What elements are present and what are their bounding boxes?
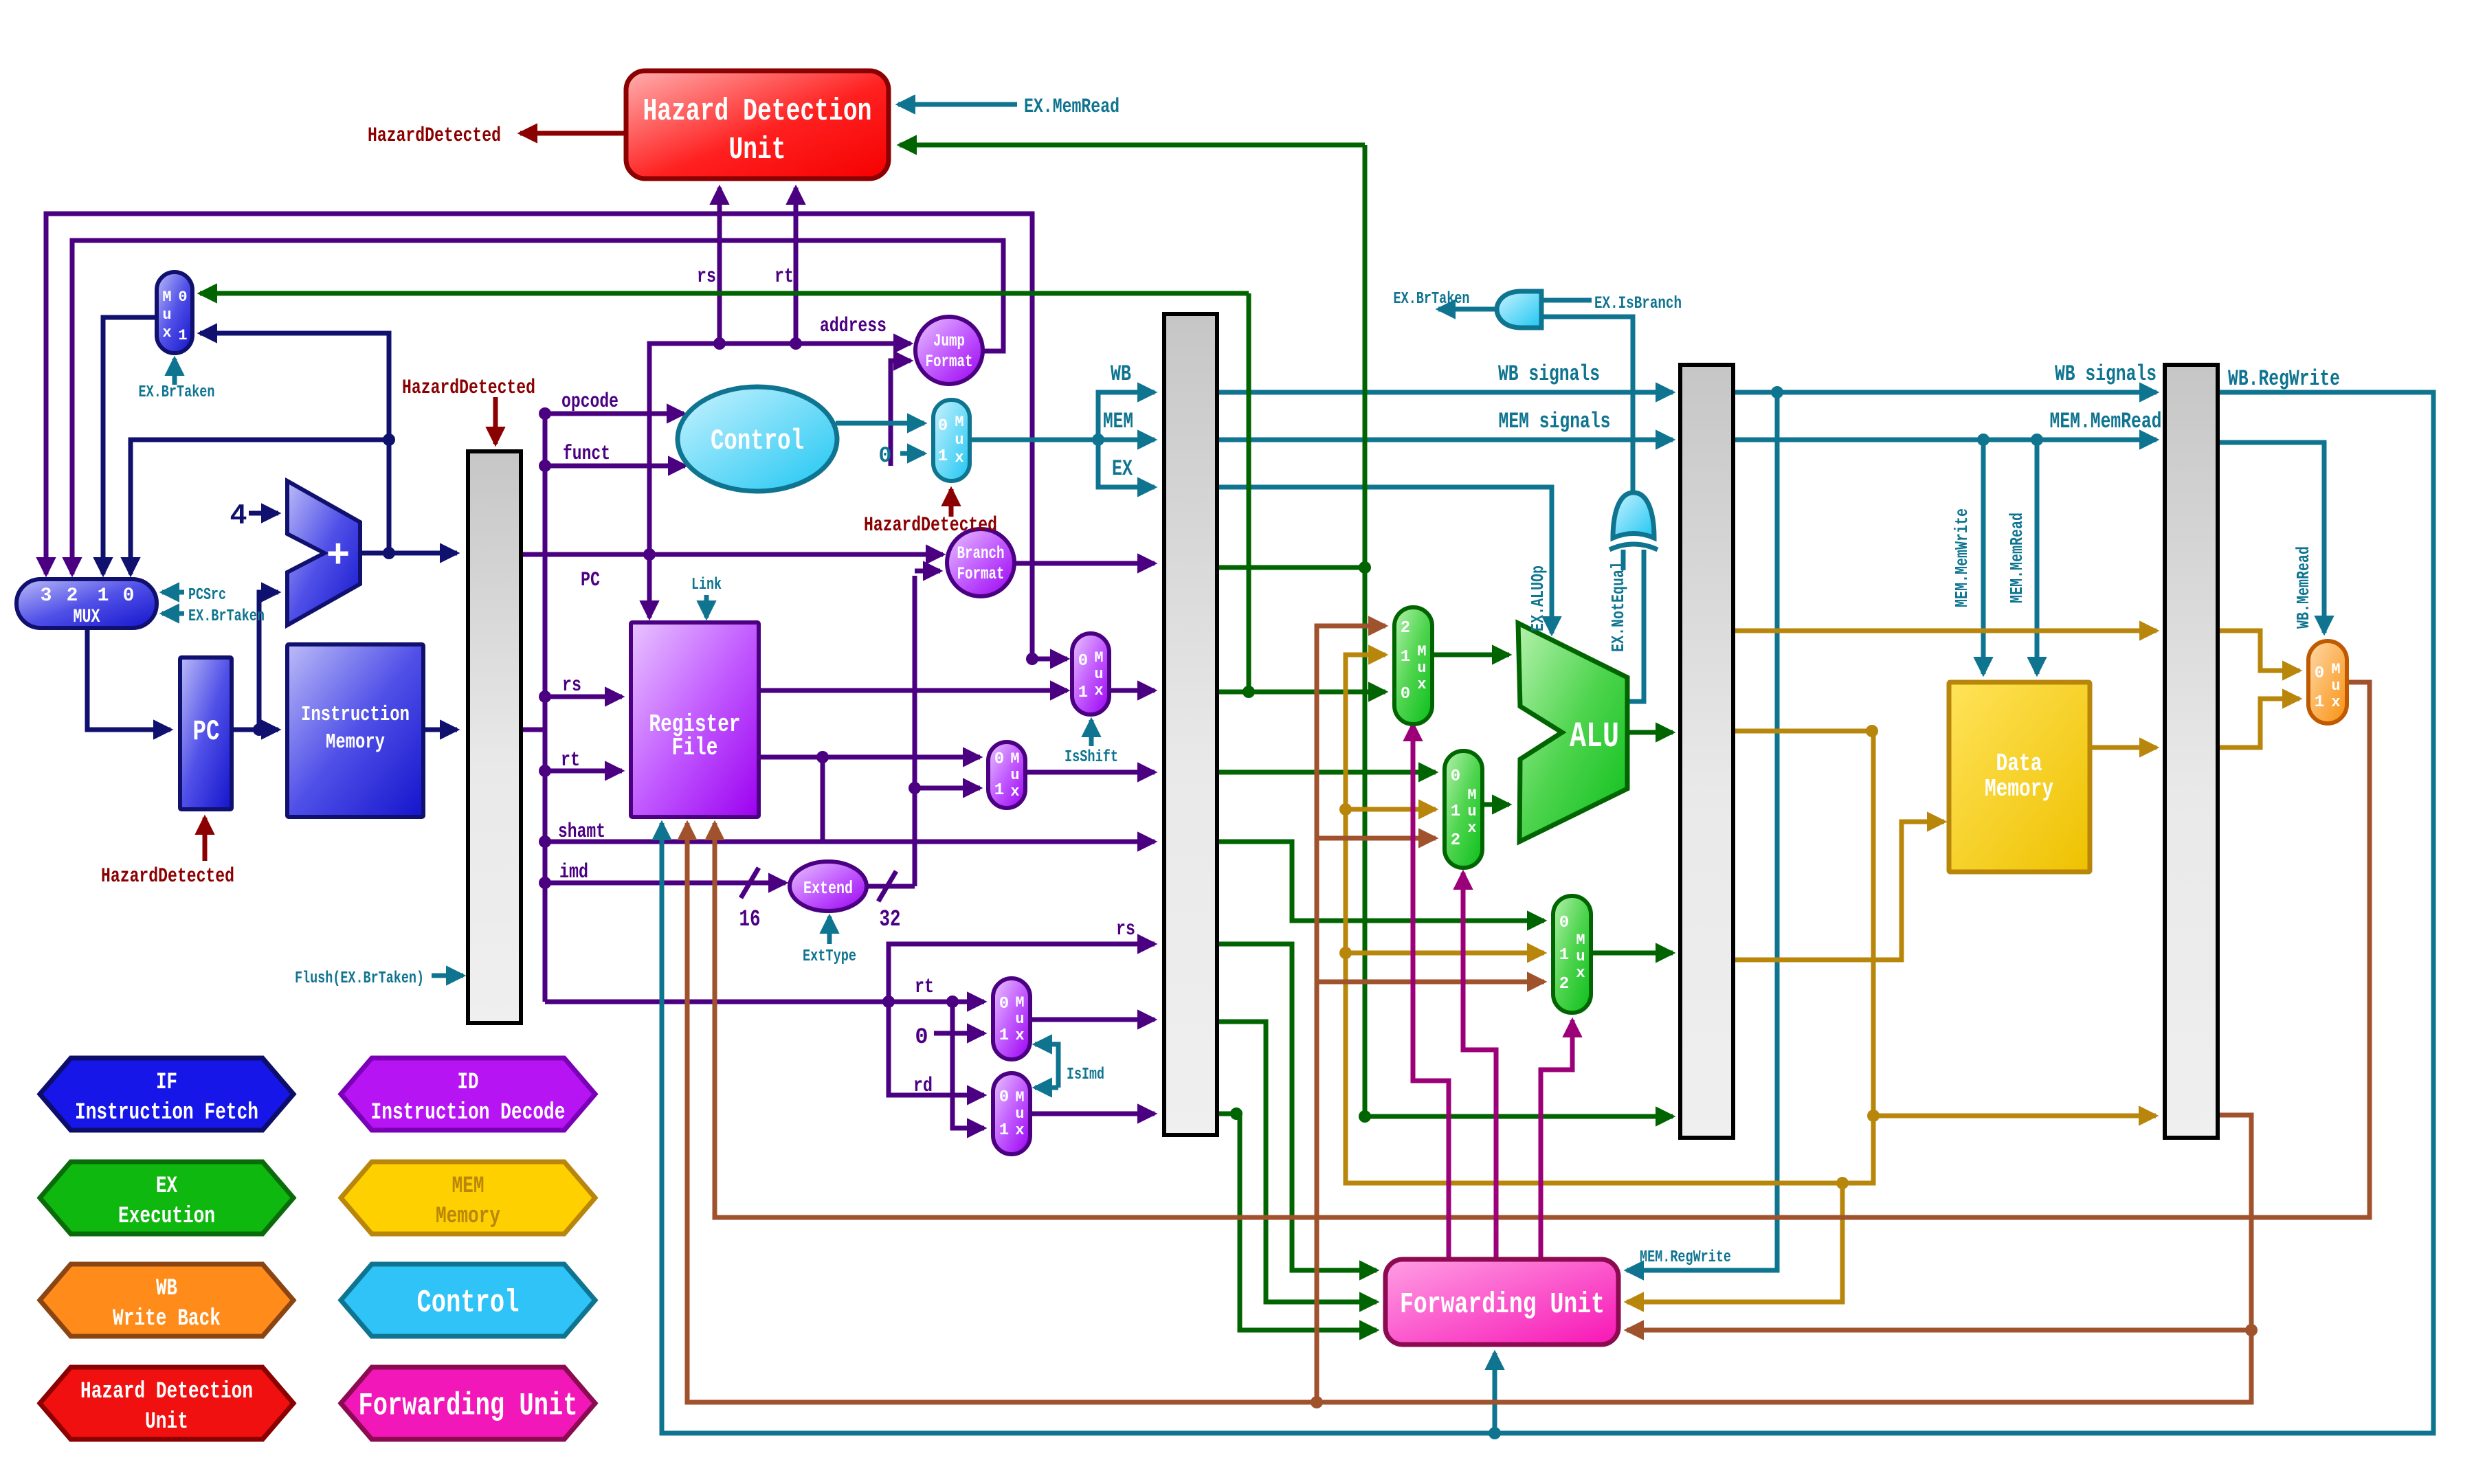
wire WB.RegWrite return rail — [662, 392, 2433, 1433]
wire jump-register feedback to PC mux input 3 — [46, 214, 1032, 659]
wire EX.MemRead into HDU — [898, 102, 1017, 107]
svg-text:rt: rt — [915, 976, 934, 999]
svg-text:2: 2 — [1451, 831, 1460, 850]
wire extend output up to branch format — [913, 576, 917, 886]
svg-text:0: 0 — [915, 1024, 928, 1050]
wire instruction stub from IF/ID — [521, 728, 545, 732]
wire rs out of ID/EX to Forwarding Unit — [1217, 944, 1377, 1270]
branch format — [947, 529, 1014, 596]
svg-text:Unit: Unit — [729, 133, 786, 168]
svg-text:u: u — [1010, 767, 1019, 784]
wire rs loop to ID/EX — [889, 944, 1155, 1002]
jump format — [915, 317, 983, 384]
wire EX target to brtaken mux — [200, 291, 1249, 296]
svg-text:imd: imd — [559, 861, 588, 884]
junction ex rail hdu — [1359, 561, 1371, 574]
svg-text:1: 1 — [938, 447, 948, 466]
svg-text:EX.IsBranch: EX.IsBranch — [1594, 293, 1682, 313]
wire shift mux output to ID/EX — [1026, 770, 1155, 775]
wire WB forward rail — [1317, 626, 1385, 1402]
rt/0 mux — [993, 978, 1030, 1059]
wire register read2 to shift mux — [759, 755, 980, 760]
store data mux — [1553, 896, 1591, 1013]
wire EX destination to HDU — [900, 143, 1365, 148]
AND gate branch taken — [1497, 291, 1541, 328]
wire Data Memory output to MEM/WB — [2090, 745, 2157, 750]
svg-text:M: M — [2331, 661, 2340, 678]
svg-text:shamt: shamt — [558, 820, 605, 844]
junction ind — [909, 782, 921, 794]
svg-text:rs: rs — [562, 674, 581, 697]
wire WB data return — [687, 823, 2251, 1402]
sign extend — [790, 862, 867, 911]
wire rt tap down to rd mux input1 — [952, 1002, 984, 1128]
svg-text:IsImd: IsImd — [1067, 1066, 1104, 1084]
wire WB signals ID/EX to EX/MEM — [1217, 390, 1673, 395]
svg-text:MEM.MemRead: MEM.MemRead — [2007, 513, 2027, 603]
svg-text:u: u — [1467, 803, 1476, 820]
junction ind — [539, 835, 551, 848]
register file — [631, 622, 759, 817]
control bubble mux — [933, 400, 970, 481]
svg-text:M: M — [162, 289, 171, 306]
svg-text:Forwarding Unit: Forwarding Unit — [1400, 1288, 1605, 1321]
svg-text:1: 1 — [98, 585, 109, 607]
junction ind — [816, 751, 829, 763]
wire read2 tap down to shamt rail — [821, 757, 825, 842]
wire MEM.MemRead into Data Memory — [2035, 440, 2040, 674]
junction ind — [539, 690, 551, 703]
wire EX target rail down — [1247, 293, 1251, 692]
wire MEM.RegWrite to Forwarding Unit — [1627, 392, 1777, 1270]
slash 32-bit — [878, 871, 896, 901]
wire EX dest into EX/MEM — [1365, 1114, 1673, 1119]
svg-text:0: 0 — [999, 995, 1009, 1013]
wire branch format output to ID/EX — [1014, 561, 1155, 566]
wire jump-register tap into link mux input 0 — [1032, 657, 1067, 662]
svg-text:Unit: Unit — [145, 1409, 188, 1435]
svg-text:Forwarding Unit: Forwarding Unit — [359, 1389, 578, 1424]
svg-text:0: 0 — [994, 750, 1004, 769]
wire funct to Control — [545, 464, 685, 469]
svg-text:EX.BrTaken: EX.BrTaken — [188, 607, 265, 626]
svg-text:x: x — [1576, 965, 1585, 982]
XOR gate not-equal — [1613, 493, 1654, 538]
wire extend tap to shift mux input 1 — [915, 786, 980, 791]
svg-text:ID: ID — [458, 1070, 479, 1096]
wire WB signals EX/MEM to MEM/WB — [1732, 390, 2157, 395]
junction ind — [1026, 653, 1038, 665]
svg-text:Branch: Branch — [957, 543, 1005, 563]
junction pc out — [253, 723, 265, 736]
wire PC mux output to PC — [87, 628, 170, 730]
svg-text:Link: Link — [691, 576, 722, 594]
svg-text:WB signals: WB signals — [2055, 361, 2157, 387]
wire PC to Instruction Memory — [232, 728, 278, 732]
brtaken MUX — [157, 272, 192, 353]
wire EX.BrTaken result — [1438, 307, 1497, 312]
svg-text:rs: rs — [1116, 918, 1135, 941]
junction rd green — [1230, 1108, 1242, 1120]
junction pc+4 b — [383, 434, 395, 446]
svg-text:rt: rt — [774, 265, 794, 289]
junction ind — [946, 996, 959, 1008]
wire EX branch-taken rail — [1363, 145, 1368, 1116]
svg-text:Control: Control — [711, 425, 804, 458]
svg-text:rt: rt — [561, 749, 580, 772]
junction amb fu — [1836, 1177, 1849, 1189]
wire IsImd select — [1035, 1044, 1058, 1088]
svg-text:EX.MemRead: EX.MemRead — [1024, 95, 1119, 119]
svg-text:1: 1 — [994, 781, 1004, 800]
wire jump format lower input — [891, 361, 911, 466]
junction pc+4 a — [383, 547, 395, 559]
wire rt into rt/0 mux — [889, 1000, 984, 1004]
svg-text:opcode: opcode — [561, 390, 618, 414]
svg-text:x: x — [1094, 682, 1103, 699]
svg-text:rd: rd — [913, 1075, 933, 1098]
svg-text:0: 0 — [178, 289, 187, 306]
svg-text:M: M — [1015, 1089, 1024, 1106]
shift mux — [988, 742, 1025, 808]
svg-text:HazardDetected: HazardDetected — [864, 514, 997, 537]
svg-text:WB.MemRead: WB.MemRead — [2293, 546, 2314, 629]
svg-text:PC: PC — [193, 715, 220, 748]
wire bypass value to WB mux — [2217, 631, 2299, 671]
wire rs into Register File — [545, 695, 622, 699]
wire instruction distribution rail — [543, 414, 548, 1002]
wire MEM result to MEM/WB bottom — [1873, 1114, 2156, 1118]
wire rd out of ID/EX to Forwarding Unit — [1217, 1114, 1377, 1330]
wire branch format lower input — [915, 569, 940, 574]
svg-text:MUX: MUX — [74, 607, 100, 628]
junction amb st — [1339, 947, 1352, 959]
svg-text:rs: rs — [697, 265, 716, 289]
svg-text:EX.ALUOp: EX.ALUOp — [1528, 565, 1548, 631]
wire IsShift select — [1089, 720, 1094, 746]
wire EX.IsBranch into AND — [1541, 298, 1592, 303]
svg-text:u: u — [1015, 1011, 1024, 1028]
svg-text:EX.BrTaken: EX.BrTaken — [1394, 290, 1470, 308]
wire Control output to control mux — [836, 421, 924, 426]
svg-text:Hazard Detection: Hazard Detection — [643, 94, 872, 129]
svg-text:IF: IF — [156, 1070, 177, 1096]
svg-text:x: x — [1417, 676, 1426, 693]
svg-text:x: x — [2331, 694, 2340, 711]
junction ind — [882, 996, 895, 1008]
wire PC tap up to adder — [259, 592, 278, 730]
svg-text:EX: EX — [1112, 456, 1133, 482]
svg-text:1: 1 — [1078, 684, 1088, 702]
svg-text:HazardDetected: HazardDetected — [368, 124, 501, 148]
wire Flush(EX.BrTaken) into IF/ID — [432, 974, 463, 978]
wire store data mux output to EX/MEM — [1591, 951, 1673, 956]
svg-text:x: x — [1467, 820, 1476, 837]
junction ind — [539, 877, 551, 889]
svg-text:1: 1 — [1451, 802, 1460, 821]
svg-text:u: u — [1576, 948, 1585, 965]
legend ID — [341, 1058, 595, 1130]
svg-text:Instruction: Instruction — [301, 703, 410, 727]
wire const 4 into adder — [249, 511, 278, 516]
instruction memory — [287, 644, 423, 817]
wire forward A mux output to ALU — [1432, 653, 1509, 657]
svg-text:u: u — [1015, 1105, 1024, 1123]
svg-text:File: File — [672, 734, 718, 762]
junction memwrite — [1977, 434, 1990, 446]
data memory — [1949, 682, 2090, 872]
legend HDU — [40, 1367, 293, 1439]
wire IsImd select lower — [1035, 1086, 1058, 1090]
wire register read1 to link mux — [759, 688, 1067, 693]
svg-text:EX.NotEqual: EX.NotEqual — [1608, 561, 1629, 652]
wire MEM signals EX/MEM to MEM/WB — [1732, 438, 2157, 442]
wire branch target out of ID/EX — [1217, 565, 1365, 570]
svg-text:0: 0 — [938, 417, 948, 436]
slash 16-bit — [741, 868, 759, 898]
legend WB — [40, 1264, 293, 1336]
legend Control — [341, 1264, 595, 1336]
pipeline register MEM/WB — [2165, 365, 2218, 1138]
wire jump target to PC mux input 2 — [72, 240, 1003, 574]
svg-text:Control: Control — [417, 1285, 520, 1321]
wire adder output to IF/ID — [360, 551, 457, 556]
link mux — [1072, 633, 1109, 715]
svg-text:Jump: Jump — [933, 331, 965, 351]
wire WB.RegWrite to Forwarding Unit — [1493, 1353, 1497, 1433]
wire WB dest to Forwarding Unit — [1627, 1328, 2251, 1333]
svg-text:EX: EX — [156, 1173, 177, 1200]
wire Instruction Memory output to IF/ID — [423, 728, 457, 732]
forwarding unit — [1385, 1259, 1618, 1345]
junction teal ctl — [1092, 434, 1104, 446]
wire EX.BrTaken select PC mux — [162, 611, 184, 616]
svg-text:3: 3 — [41, 585, 52, 607]
wire brtaken mux output to PC mux input 1 — [103, 317, 157, 574]
svg-text:u: u — [2331, 677, 2340, 695]
wire rd line into rd mux — [889, 1002, 984, 1095]
wire forward B mux output to ALU — [1482, 802, 1509, 807]
svg-text:16: 16 — [739, 907, 761, 933]
legend IF — [40, 1058, 293, 1130]
wire EX/MEM result bypass to MEM/WB — [1732, 629, 2157, 633]
svg-text:Memory: Memory — [436, 1204, 500, 1230]
wire PC+4 rail to mux input 0 — [131, 440, 389, 574]
svg-text:MEM: MEM — [452, 1173, 484, 1200]
junction brn fu — [2245, 1324, 2258, 1336]
svg-text:1: 1 — [2315, 693, 2324, 712]
wire PC value to Branch Format — [521, 552, 943, 557]
junction brn rail — [1311, 1396, 1323, 1408]
svg-text:MEM.MemRead: MEM.MemRead — [2050, 409, 2162, 434]
svg-text:x: x — [955, 449, 963, 466]
forward A mux — [1394, 607, 1432, 724]
wire WB forward to B mux — [1317, 836, 1436, 841]
svg-text:MEM: MEM — [1103, 409, 1133, 434]
wire memory value to WB mux — [2217, 699, 2299, 747]
wire forward select B — [1463, 873, 1496, 1259]
svg-text:u: u — [162, 306, 171, 324]
wire 0 const into control mux — [900, 451, 924, 456]
svg-text:M: M — [1015, 994, 1024, 1011]
svg-text:M: M — [1467, 787, 1476, 804]
control unit — [678, 387, 837, 491]
svg-text:4: 4 — [230, 499, 247, 532]
svg-text:HazardDetected: HazardDetected — [402, 376, 535, 400]
wire link mux output to ID/EX — [1110, 688, 1155, 693]
svg-text:funct: funct — [563, 442, 610, 466]
svg-text:1: 1 — [999, 1026, 1009, 1045]
wire WB mux output writeback — [715, 682, 2370, 1217]
wire NotEqual to AND gate — [1541, 317, 1633, 491]
wire forward select store — [1541, 1020, 1572, 1259]
svg-text:Format: Format — [957, 564, 1005, 584]
svg-text:Hazard Detection: Hazard Detection — [80, 1379, 253, 1405]
svg-text:1: 1 — [999, 1121, 1009, 1140]
wire address rail to Jump Format — [649, 344, 911, 554]
junction wb sig — [1771, 386, 1783, 398]
wire imd to Extend — [545, 881, 785, 886]
wire HazardDetected arrow into PC write — [203, 818, 208, 861]
wire shamt out of ID/EX — [1217, 842, 1544, 921]
junction amb alu — [1866, 725, 1878, 737]
wire Link into Register File — [704, 595, 709, 618]
wire PCSrc select — [162, 590, 184, 595]
ALU — [1518, 623, 1627, 842]
wire HazardDetected arrow into control mux — [949, 489, 954, 517]
svg-text:0: 0 — [878, 443, 891, 469]
svg-text:PC: PC — [581, 569, 600, 592]
svg-text:x: x — [1010, 783, 1019, 800]
svg-text:Format: Format — [926, 352, 973, 372]
junction ex rail bottom — [1359, 1110, 1371, 1123]
wire ALU flag to NotEqual gate — [1629, 550, 1644, 701]
wire opcode to Control — [545, 412, 684, 416]
wire ExtType select into Extend — [827, 917, 832, 944]
PC register — [180, 657, 232, 809]
wire MEM forward to store mux — [1346, 951, 1544, 956]
svg-text:0: 0 — [1401, 685, 1410, 704]
hazard detection unit — [626, 71, 889, 179]
svg-text:Execution: Execution — [118, 1204, 215, 1230]
svg-text:WB signals: WB signals — [1498, 361, 1600, 387]
wire HazardDetected output from HDU — [520, 131, 626, 136]
svg-text:0: 0 — [1451, 767, 1460, 786]
wire rt into Register File — [545, 769, 622, 774]
wire shamt to ID/EX — [545, 840, 1155, 844]
wire rs field up to Hazard Detection — [717, 188, 722, 344]
wire operand A out of ID/EX — [1217, 690, 1385, 695]
svg-text:IsShift: IsShift — [1065, 748, 1118, 767]
wire HazardDetected arrow into IF/ID flush — [493, 397, 498, 444]
svg-text:Instruction Decode: Instruction Decode — [371, 1100, 566, 1126]
svg-text:ALU: ALU — [1570, 717, 1619, 757]
svg-text:x: x — [1015, 1027, 1024, 1044]
legend EX — [40, 1162, 293, 1234]
wire EX bundle into ID/EX — [1098, 440, 1155, 487]
svg-text:WB: WB — [1111, 361, 1131, 387]
svg-text:2: 2 — [67, 585, 78, 607]
svg-text:0: 0 — [1559, 914, 1569, 932]
wire WB forward to store mux — [1317, 980, 1544, 985]
svg-text:address: address — [820, 315, 887, 338]
svg-text:Instruction Fetch: Instruction Fetch — [75, 1100, 258, 1126]
svg-text:u: u — [1094, 666, 1103, 683]
junction amb membot — [1867, 1110, 1880, 1122]
wire WB bundle into ID/EX — [1098, 392, 1155, 440]
svg-text:x: x — [162, 324, 171, 341]
svg-text:Memory: Memory — [326, 730, 385, 754]
wire MEM forward to B mux — [1346, 807, 1436, 812]
svg-text:WB: WB — [156, 1276, 177, 1302]
wire rt out of ID/EX to Forwarding Unit — [1217, 1022, 1377, 1302]
svg-text:1: 1 — [1559, 946, 1569, 965]
pipeline register EX/MEM — [1680, 365, 1733, 1138]
wire ALU result out of EX/MEM — [1732, 729, 1872, 734]
wire WB.MemRead select — [2217, 442, 2324, 633]
wire rt/0 mux output to ID/EX — [1030, 1018, 1155, 1022]
wire rd mux output to ID/EX — [1030, 1112, 1155, 1116]
svg-text:1: 1 — [1401, 648, 1410, 666]
svg-text:0: 0 — [1078, 652, 1088, 671]
svg-text:0: 0 — [999, 1088, 1009, 1107]
svg-text:M: M — [1576, 932, 1585, 949]
svg-text:M: M — [1417, 643, 1426, 660]
svg-text:PCSrc: PCSrc — [188, 586, 226, 605]
junction amb b — [1339, 803, 1352, 816]
svg-text:2: 2 — [1559, 975, 1569, 993]
legend MEM — [341, 1162, 595, 1234]
svg-text:0: 0 — [123, 585, 135, 607]
wire control mux output — [970, 438, 1098, 442]
junction ind — [539, 460, 551, 472]
svg-text:M: M — [1094, 649, 1103, 666]
wire adder out up to PC+4 rail — [200, 333, 389, 553]
svg-text:M: M — [955, 414, 963, 431]
writeback mux — [2308, 641, 2347, 723]
svg-text:2: 2 — [1401, 619, 1410, 638]
wire 0 const into rt/0 mux — [934, 1031, 984, 1036]
svg-text:MEM signals: MEM signals — [1499, 409, 1611, 434]
rd mux — [993, 1073, 1030, 1154]
adder PC+4 — [287, 481, 360, 625]
wire ALU result to EX/MEM — [1627, 730, 1673, 735]
svg-text:u: u — [1417, 660, 1426, 677]
wire instruction fields to rs/rt/rd muxes — [545, 1000, 984, 1004]
wire extend output — [866, 884, 915, 889]
svg-text:0: 0 — [2315, 664, 2324, 683]
wire MEM bundle into ID/EX — [1098, 438, 1155, 442]
legend FWD — [341, 1367, 595, 1439]
forward B mux — [1445, 751, 1482, 868]
junction regwrite ret — [1489, 1427, 1501, 1439]
wire MEM forward to Forwarding Unit — [1627, 1183, 1842, 1302]
pipeline register IF/ID — [468, 451, 521, 1023]
svg-text:Flush(EX.BrTaken): Flush(EX.BrTaken) — [295, 969, 424, 988]
svg-text:MEM.MemWrite: MEM.MemWrite — [1952, 508, 1972, 607]
svg-text:1: 1 — [178, 327, 187, 344]
wire MEM.MemWrite into Data Memory — [1981, 440, 1986, 674]
wire MEM forward rail — [1346, 655, 1873, 1183]
svg-text:32: 32 — [880, 907, 901, 933]
wire operand B out of ID/EX — [1217, 770, 1436, 775]
svg-text:HazardDetected: HazardDetected — [101, 865, 234, 888]
svg-text:EX.BrTaken: EX.BrTaken — [139, 383, 215, 402]
wire forward select A — [1413, 724, 1449, 1259]
junction ind — [539, 407, 551, 420]
wire NotEqual gate left stub — [1621, 550, 1626, 570]
svg-text:+: + — [326, 535, 350, 579]
